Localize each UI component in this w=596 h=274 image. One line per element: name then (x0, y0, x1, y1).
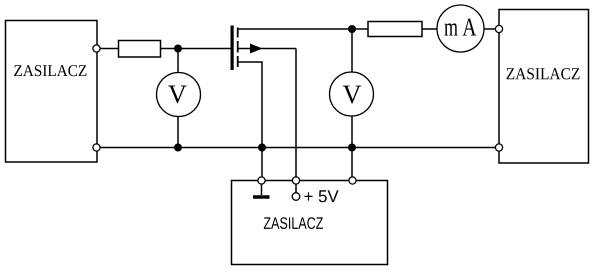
wire: PS1 top terminal to resistor R1 (100, 48, 119, 50)
Q1 body arrow head (250, 44, 263, 54)
junction dot V2-rail (348, 144, 356, 152)
power supply PS2 box (right ZASILACZ) (499, 10, 589, 164)
wire: R2 to milliammeter (422, 28, 437, 30)
node A junction dot (gate node) (174, 45, 182, 53)
power supply PS1 box (left ZASILACZ) (6, 21, 98, 163)
junction dot drain node (348, 25, 356, 33)
voltmeter V1 (157, 73, 201, 117)
node +5V open circle (292, 193, 300, 201)
terminal PS3 middle (292, 177, 299, 184)
label PS3 ZASILACZ (264, 217, 323, 229)
wire: mA to PS2 terminal (484, 28, 496, 30)
resistor R2 (368, 22, 422, 37)
terminal PS3 right (349, 177, 356, 184)
junction dot V1-rail (174, 144, 182, 152)
wire: gate node down to voltmeter V1 (177, 49, 179, 74)
terminal PS3 ground (258, 177, 265, 184)
resistor R1 (119, 41, 161, 58)
wire: drain dot to resistor R2 (352, 28, 368, 30)
Q1 source lead (239, 62, 263, 148)
milliammeter mA (437, 5, 484, 52)
transistor Q1 MOSFET gate bar (231, 26, 234, 71)
Q1 drain lead (239, 28, 353, 30)
ground symbol bar (253, 195, 270, 199)
terminal PS2 lower (495, 144, 502, 151)
terminal PS2 upper (495, 25, 502, 32)
wire: V2 down through rail to PS3 terminal (351, 116, 353, 178)
junction dot source-rail (258, 144, 266, 152)
ground symbol lead inside PS3 (261, 184, 263, 195)
power supply PS3 box (bottom ZASILACZ) (232, 181, 388, 265)
wire: R1 to gate of Q1 (161, 48, 231, 50)
terminal PS1 lower (93, 144, 100, 151)
Q1 body lead with arrow (239, 48, 297, 50)
bottom rail wire PS1 to PS2 (100, 147, 496, 149)
wire: V1 to bottom rail (177, 117, 179, 148)
Q1 channel segment bottom (237, 56, 239, 67)
Q1 channel segment middle (237, 41, 239, 53)
Q1 channel segment top (237, 28, 239, 38)
wire: body lead down to +5V terminal (crosses rail, no dot) (295, 49, 297, 178)
label +5V (304, 190, 338, 202)
label PS1 ZASILACZ (14, 65, 86, 76)
voltmeter V2 (330, 72, 374, 116)
label PS2 ZASILACZ (507, 68, 580, 79)
terminal PS1 upper (93, 45, 100, 52)
wire: drain dot down to voltmeter V2 (351, 29, 353, 73)
wire: PS3 middle terminal to +5V node (295, 184, 297, 193)
wire: source node down to PS3 ground terminal (261, 148, 263, 178)
